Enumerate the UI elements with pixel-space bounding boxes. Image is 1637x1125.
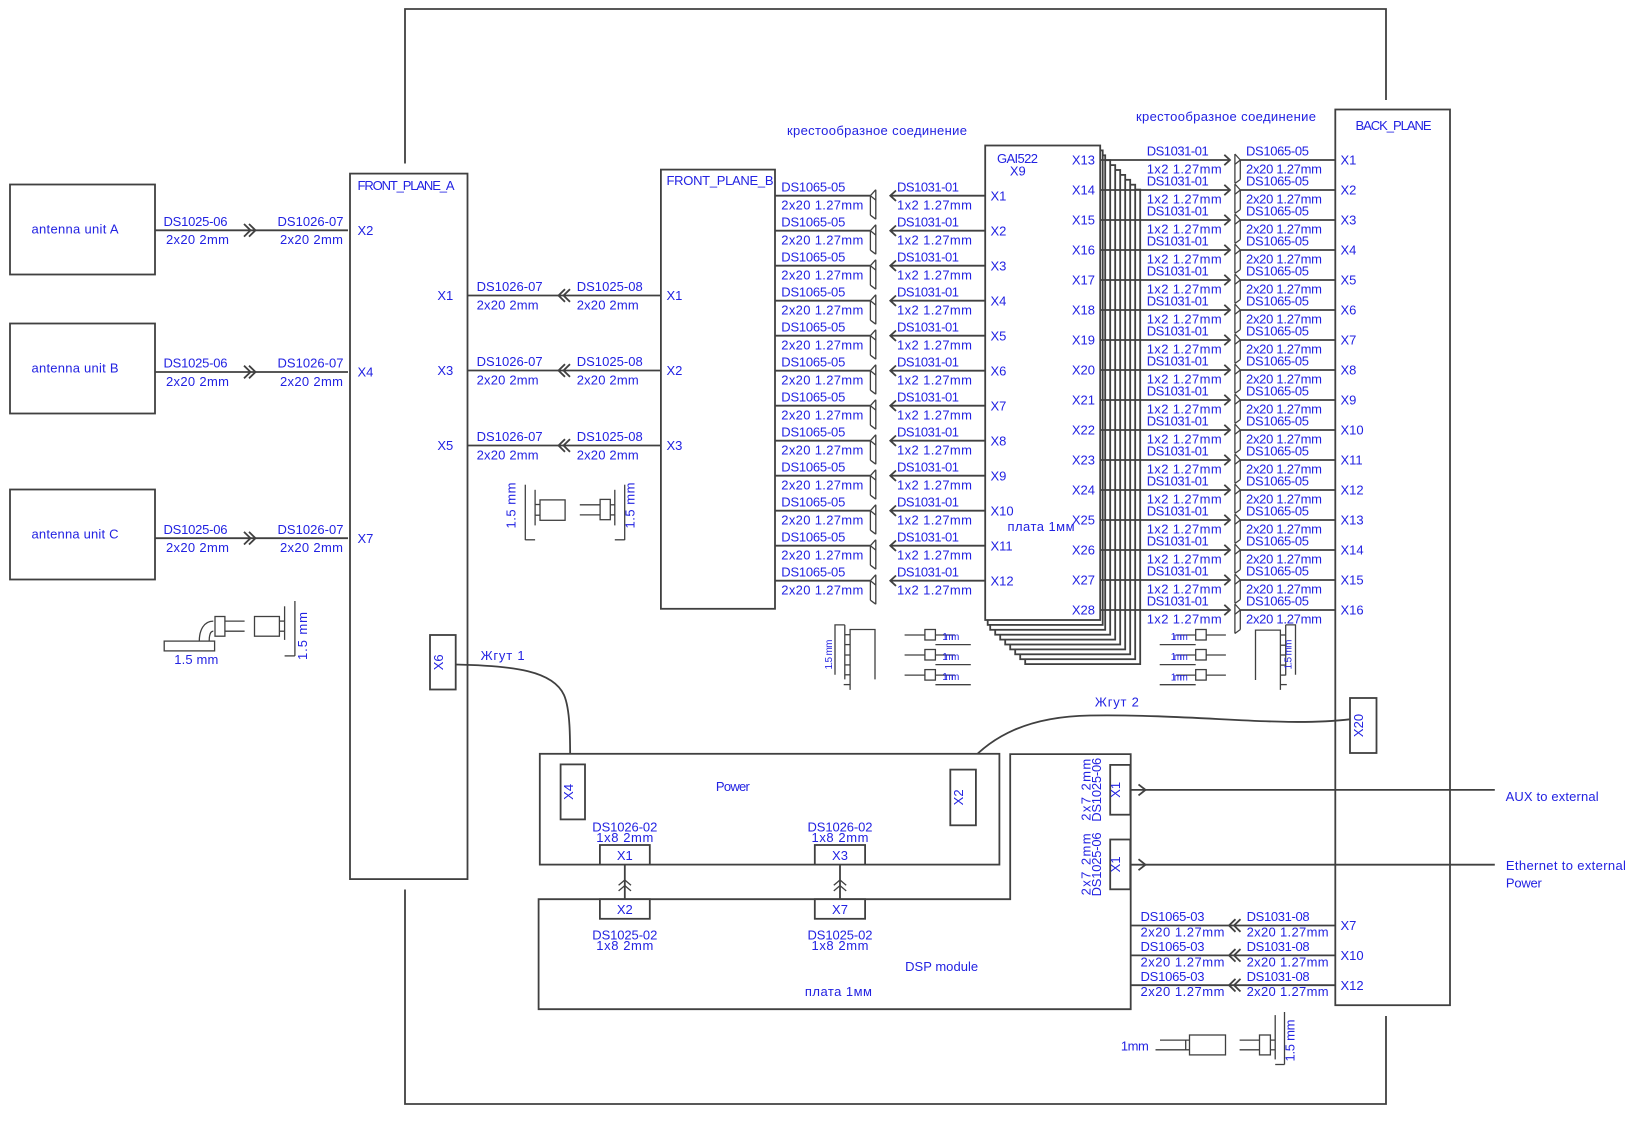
svg-text:1mm: 1mm xyxy=(942,632,959,643)
svg-text:X5: X5 xyxy=(1341,273,1357,288)
svg-text:DS1065-05: DS1065-05 xyxy=(1246,264,1309,279)
svg-text:2x20 1.27mm: 2x20 1.27mm xyxy=(1247,925,1329,940)
svg-text:X19: X19 xyxy=(1072,333,1095,348)
svg-text:1x8 2mm: 1x8 2mm xyxy=(596,938,653,953)
svg-text:DS1031-01: DS1031-01 xyxy=(897,564,959,579)
svg-text:X25: X25 xyxy=(1072,513,1095,528)
svg-text:Жгут 2: Жгут 2 xyxy=(1095,694,1139,709)
svg-text:DS1031-01: DS1031-01 xyxy=(1147,474,1209,489)
svg-text:1x8 2mm: 1x8 2mm xyxy=(812,830,869,845)
svg-text:DS1031-01: DS1031-01 xyxy=(1147,234,1209,249)
svg-text:X24: X24 xyxy=(1072,483,1095,498)
svg-text:BACK_PLANE: BACK_PLANE xyxy=(1356,118,1432,133)
svg-text:Жгут 1: Жгут 1 xyxy=(481,648,525,663)
svg-text:X27: X27 xyxy=(1072,573,1095,588)
svg-text:X3: X3 xyxy=(667,438,683,453)
svg-text:X1: X1 xyxy=(617,848,633,863)
svg-text:Ethernet to external: Ethernet to external xyxy=(1506,858,1626,873)
svg-text:1.5 mm: 1.5 mm xyxy=(504,483,519,529)
svg-text:DS1031-01: DS1031-01 xyxy=(1147,564,1209,579)
svg-text:X20: X20 xyxy=(1351,714,1366,737)
svg-text:X8: X8 xyxy=(991,433,1007,448)
svg-text:DS1065-03: DS1065-03 xyxy=(1141,969,1205,984)
svg-text:DS1065-05: DS1065-05 xyxy=(781,424,845,439)
svg-text:2x20 1.27mm: 2x20 1.27mm xyxy=(781,233,863,248)
svg-text:2x20 2mm: 2x20 2mm xyxy=(166,232,229,247)
svg-text:X28: X28 xyxy=(1072,603,1095,618)
svg-text:DS1065-03: DS1065-03 xyxy=(1141,939,1205,954)
svg-text:2x20 2mm: 2x20 2mm xyxy=(166,540,229,555)
svg-text:X4: X4 xyxy=(991,293,1007,308)
svg-text:DS1065-05: DS1065-05 xyxy=(781,319,845,334)
svg-text:DS1031-01: DS1031-01 xyxy=(1147,354,1209,369)
svg-text:DS1025-08: DS1025-08 xyxy=(577,279,643,294)
svg-text:Power: Power xyxy=(1506,875,1543,890)
svg-text:DS1031-01: DS1031-01 xyxy=(897,214,959,229)
svg-text:крестообразное соединение: крестообразное соединение xyxy=(1136,109,1316,124)
svg-text:2x20 1.27mm: 2x20 1.27mm xyxy=(781,548,863,563)
svg-text:X1: X1 xyxy=(437,288,453,303)
svg-text:DS1065-05: DS1065-05 xyxy=(1246,324,1309,339)
svg-text:DS1031-01: DS1031-01 xyxy=(1147,204,1209,219)
svg-text:X11: X11 xyxy=(991,538,1013,553)
svg-text:DS1065-05: DS1065-05 xyxy=(1246,354,1309,369)
svg-text:1x8 2mm: 1x8 2mm xyxy=(596,830,653,845)
svg-text:DS1065-05: DS1065-05 xyxy=(781,494,845,509)
svg-text:DS1025-06: DS1025-06 xyxy=(164,356,228,371)
svg-text:DS1031-01: DS1031-01 xyxy=(1147,414,1209,429)
svg-text:X6: X6 xyxy=(991,363,1007,378)
svg-text:DS1031-01: DS1031-01 xyxy=(897,424,959,439)
svg-text:DS1031-01: DS1031-01 xyxy=(1147,384,1209,399)
svg-text:X2: X2 xyxy=(991,223,1007,238)
svg-text:X3: X3 xyxy=(832,848,848,863)
svg-text:1.5 mm: 1.5 mm xyxy=(1284,640,1295,670)
svg-text:DS1065-05: DS1065-05 xyxy=(1246,534,1309,549)
svg-text:DS1031-08: DS1031-08 xyxy=(1247,939,1310,954)
svg-text:DS1031-01: DS1031-01 xyxy=(1147,594,1209,609)
svg-text:2x20 2mm: 2x20 2mm xyxy=(577,297,639,312)
svg-text:X3: X3 xyxy=(991,258,1007,273)
svg-text:1x2 1.27mm: 1x2 1.27mm xyxy=(897,548,972,563)
svg-text:X16: X16 xyxy=(1341,603,1364,618)
svg-text:X1: X1 xyxy=(1108,856,1123,872)
svg-text:DS1065-05: DS1065-05 xyxy=(1246,384,1309,399)
svg-text:DS1025-08: DS1025-08 xyxy=(577,354,643,369)
svg-text:DS1031-08: DS1031-08 xyxy=(1247,909,1310,924)
svg-text:DS1065-05: DS1065-05 xyxy=(781,249,845,264)
svg-text:DS1026-07: DS1026-07 xyxy=(278,356,344,371)
svg-text:X7: X7 xyxy=(832,902,848,917)
svg-text:DS1031-01: DS1031-01 xyxy=(1147,264,1209,279)
svg-text:DS1031-08: DS1031-08 xyxy=(1247,969,1310,984)
svg-text:X3: X3 xyxy=(1341,213,1357,228)
svg-text:DS1025-06: DS1025-06 xyxy=(1089,832,1104,896)
svg-text:2x20 2mm: 2x20 2mm xyxy=(477,297,539,312)
svg-text:2x20 2mm: 2x20 2mm xyxy=(477,447,539,462)
svg-text:antenna unit B: antenna unit B xyxy=(32,361,119,376)
svg-text:DS1026-07: DS1026-07 xyxy=(278,214,344,229)
svg-text:DS1065-05: DS1065-05 xyxy=(781,284,845,299)
svg-text:1x2 1.27mm: 1x2 1.27mm xyxy=(897,443,972,458)
svg-text:X5: X5 xyxy=(437,438,453,453)
svg-text:DS1065-05: DS1065-05 xyxy=(1246,474,1309,489)
svg-text:X10: X10 xyxy=(1341,423,1364,438)
svg-text:X26: X26 xyxy=(1072,543,1095,558)
svg-text:DS1065-05: DS1065-05 xyxy=(781,354,845,369)
svg-text:DS1031-01: DS1031-01 xyxy=(897,319,959,334)
svg-text:1mm: 1mm xyxy=(1171,652,1188,663)
svg-text:X4: X4 xyxy=(358,365,374,380)
svg-text:DS1065-05: DS1065-05 xyxy=(781,529,845,544)
svg-text:1x2 1.27mm: 1x2 1.27mm xyxy=(897,268,972,283)
svg-text:X22: X22 xyxy=(1072,423,1095,438)
svg-text:X10: X10 xyxy=(1341,948,1364,963)
svg-text:DS1065-05: DS1065-05 xyxy=(1246,174,1309,189)
svg-text:1.5 mm: 1.5 mm xyxy=(622,483,637,529)
svg-text:DS1031-01: DS1031-01 xyxy=(897,389,959,404)
svg-text:DS1065-05: DS1065-05 xyxy=(1246,234,1309,249)
svg-text:DS1031-01: DS1031-01 xyxy=(897,284,959,299)
svg-text:X13: X13 xyxy=(1072,153,1095,168)
svg-text:DS1065-05: DS1065-05 xyxy=(1246,414,1309,429)
svg-text:DS1065-05: DS1065-05 xyxy=(1246,444,1309,459)
svg-text:1mm: 1mm xyxy=(942,652,959,663)
svg-text:X10: X10 xyxy=(991,503,1014,518)
svg-text:DS1031-01: DS1031-01 xyxy=(897,179,959,194)
svg-text:DS1026-07: DS1026-07 xyxy=(477,354,543,369)
svg-text:DS1065-05: DS1065-05 xyxy=(1246,294,1309,309)
svg-text:X4: X4 xyxy=(561,784,576,800)
svg-text:X12: X12 xyxy=(991,573,1014,588)
svg-text:1mm: 1mm xyxy=(942,672,959,683)
svg-text:1mm: 1mm xyxy=(1171,672,1188,683)
svg-text:1x2 1.27mm: 1x2 1.27mm xyxy=(897,338,972,353)
svg-text:2x20 2mm: 2x20 2mm xyxy=(166,374,229,389)
svg-text:2x20 1.27mm: 2x20 1.27mm xyxy=(1247,954,1329,969)
svg-text:1x2 1.27mm: 1x2 1.27mm xyxy=(1147,612,1222,627)
svg-text:DSP module: DSP module xyxy=(905,959,978,974)
svg-text:X2: X2 xyxy=(617,902,633,917)
svg-text:X2: X2 xyxy=(1341,183,1357,198)
svg-text:DS1031-01: DS1031-01 xyxy=(1147,294,1209,309)
svg-text:X2: X2 xyxy=(667,363,683,378)
svg-text:DS1031-01: DS1031-01 xyxy=(1147,324,1209,339)
svg-text:X2: X2 xyxy=(951,789,966,805)
svg-text:X7: X7 xyxy=(991,398,1007,413)
svg-text:X20: X20 xyxy=(1072,363,1095,378)
svg-text:X9: X9 xyxy=(991,468,1007,483)
svg-text:1x2 1.27mm: 1x2 1.27mm xyxy=(897,373,972,388)
svg-text:DS1025-06: DS1025-06 xyxy=(164,214,228,229)
svg-text:antenna unit A: antenna unit A xyxy=(32,222,119,237)
svg-text:2x20 2mm: 2x20 2mm xyxy=(280,374,343,389)
svg-text:1x8 2mm: 1x8 2mm xyxy=(812,938,869,953)
svg-text:DS1026-07: DS1026-07 xyxy=(477,429,543,444)
svg-text:X1: X1 xyxy=(991,188,1007,203)
svg-text:X5: X5 xyxy=(991,328,1007,343)
svg-text:DS1065-03: DS1065-03 xyxy=(1141,909,1205,924)
svg-text:2x20 2mm: 2x20 2mm xyxy=(280,232,343,247)
svg-text:DS1065-05: DS1065-05 xyxy=(1246,504,1309,519)
svg-text:1x2 1.27mm: 1x2 1.27mm xyxy=(897,408,972,423)
svg-text:DS1031-01: DS1031-01 xyxy=(897,249,959,264)
svg-text:1.5 mm: 1.5 mm xyxy=(174,652,218,667)
svg-text:2x20 1.27mm: 2x20 1.27mm xyxy=(1246,612,1322,627)
svg-text:X7: X7 xyxy=(358,531,374,546)
svg-text:DS1031-01: DS1031-01 xyxy=(1147,444,1209,459)
svg-text:плата 1мм: плата 1мм xyxy=(1008,519,1075,534)
svg-text:DS1031-01: DS1031-01 xyxy=(897,494,959,509)
svg-text:DS1065-05: DS1065-05 xyxy=(1246,594,1309,609)
svg-text:X1: X1 xyxy=(1108,782,1123,798)
svg-text:DS1031-01: DS1031-01 xyxy=(897,354,959,369)
svg-text:X16: X16 xyxy=(1072,243,1095,258)
svg-text:X18: X18 xyxy=(1072,303,1095,318)
svg-text:1x2 1.27mm: 1x2 1.27mm xyxy=(897,198,972,213)
svg-text:DS1026-07: DS1026-07 xyxy=(278,522,344,537)
svg-text:X7: X7 xyxy=(1341,918,1357,933)
svg-text:X14: X14 xyxy=(1072,183,1095,198)
svg-text:X15: X15 xyxy=(1341,573,1364,588)
svg-text:DS1065-05: DS1065-05 xyxy=(1246,144,1309,159)
svg-text:X9: X9 xyxy=(1010,164,1026,179)
svg-text:X9: X9 xyxy=(1341,393,1357,408)
svg-text:FRONT_PLANE_B: FRONT_PLANE_B xyxy=(667,173,774,188)
svg-text:X13: X13 xyxy=(1341,513,1364,528)
svg-text:2x20 1.27mm: 2x20 1.27mm xyxy=(1141,954,1225,969)
svg-text:X14: X14 xyxy=(1341,543,1364,558)
svg-text:X21: X21 xyxy=(1072,393,1095,408)
svg-text:2x20 1.27mm: 2x20 1.27mm xyxy=(781,268,863,283)
svg-text:DS1025-06: DS1025-06 xyxy=(164,522,228,537)
svg-text:2x20 1.27mm: 2x20 1.27mm xyxy=(781,373,863,388)
svg-text:2x20 1.27mm: 2x20 1.27mm xyxy=(781,478,863,493)
svg-text:DS1031-01: DS1031-01 xyxy=(897,529,959,544)
svg-text:X3: X3 xyxy=(437,363,453,378)
svg-text:1mm: 1mm xyxy=(1171,632,1188,643)
svg-text:крестообразное соединение: крестообразное соединение xyxy=(787,123,967,138)
svg-text:antenna unit C: antenna unit C xyxy=(32,527,119,542)
svg-text:2x20 1.27mm: 2x20 1.27mm xyxy=(781,443,863,458)
svg-text:2x20 2mm: 2x20 2mm xyxy=(477,372,539,387)
svg-text:2x20 1.27mm: 2x20 1.27mm xyxy=(781,583,863,598)
svg-text:X8: X8 xyxy=(1341,363,1357,378)
svg-text:2x20 1.27mm: 2x20 1.27mm xyxy=(1141,925,1225,940)
svg-text:2x20 2mm: 2x20 2mm xyxy=(577,372,639,387)
svg-text:2x20 1.27mm: 2x20 1.27mm xyxy=(781,338,863,353)
svg-text:DS1065-05: DS1065-05 xyxy=(781,214,845,229)
svg-text:2x20 1.27mm: 2x20 1.27mm xyxy=(781,408,863,423)
svg-text:2x20 2mm: 2x20 2mm xyxy=(280,540,343,555)
svg-text:DS1031-01: DS1031-01 xyxy=(1147,174,1209,189)
svg-text:X11: X11 xyxy=(1341,453,1363,468)
svg-text:2x20 1.27mm: 2x20 1.27mm xyxy=(1247,984,1329,999)
svg-text:FRONT_PLANE_A: FRONT_PLANE_A xyxy=(358,178,455,193)
svg-text:DS1031-01: DS1031-01 xyxy=(1147,144,1209,159)
svg-text:X1: X1 xyxy=(1341,153,1357,168)
svg-text:X12: X12 xyxy=(1341,978,1364,993)
svg-text:DS1031-01: DS1031-01 xyxy=(1147,504,1209,519)
svg-text:X4: X4 xyxy=(1341,243,1357,258)
svg-text:1.5 mm: 1.5 mm xyxy=(824,640,835,670)
svg-text:DS1031-01: DS1031-01 xyxy=(1147,534,1209,549)
svg-text:1x2 1.27mm: 1x2 1.27mm xyxy=(897,583,972,598)
svg-text:DS1065-05: DS1065-05 xyxy=(1246,564,1309,579)
svg-text:X2: X2 xyxy=(358,223,374,238)
svg-text:2x20 1.27mm: 2x20 1.27mm xyxy=(781,513,863,528)
svg-text:DS1025-08: DS1025-08 xyxy=(577,429,643,444)
svg-text:X12: X12 xyxy=(1341,483,1364,498)
svg-text:1x2 1.27mm: 1x2 1.27mm xyxy=(897,233,972,248)
svg-text:X23: X23 xyxy=(1072,453,1095,468)
svg-text:X1: X1 xyxy=(667,288,683,303)
svg-text:DS1065-05: DS1065-05 xyxy=(781,179,845,194)
svg-text:1x2 1.27mm: 1x2 1.27mm xyxy=(897,478,972,493)
svg-text:X6: X6 xyxy=(1341,303,1357,318)
svg-text:DS1065-05: DS1065-05 xyxy=(781,389,845,404)
svg-text:X15: X15 xyxy=(1072,213,1095,228)
svg-text:1.5 mm: 1.5 mm xyxy=(295,612,310,660)
svg-text:DS1026-07: DS1026-07 xyxy=(477,279,543,294)
svg-text:2x20 1.27mm: 2x20 1.27mm xyxy=(781,198,863,213)
svg-text:DS1065-05: DS1065-05 xyxy=(781,564,845,579)
svg-text:1mm: 1mm xyxy=(1121,1039,1149,1054)
svg-text:X6: X6 xyxy=(431,654,446,670)
svg-text:2x20 1.27mm: 2x20 1.27mm xyxy=(1141,984,1225,999)
svg-text:DS1025-06: DS1025-06 xyxy=(1089,758,1104,822)
svg-text:Power: Power xyxy=(716,779,751,794)
svg-text:плата 1мм: плата 1мм xyxy=(805,984,872,999)
svg-text:1x2 1.27mm: 1x2 1.27mm xyxy=(897,513,972,528)
svg-text:DS1065-05: DS1065-05 xyxy=(1246,204,1309,219)
svg-text:1x2 1.27mm: 1x2 1.27mm xyxy=(897,303,972,318)
svg-text:2x20 2mm: 2x20 2mm xyxy=(577,447,639,462)
svg-text:DS1031-01: DS1031-01 xyxy=(897,459,959,474)
svg-text:X17: X17 xyxy=(1072,273,1095,288)
svg-text:1.5 mm: 1.5 mm xyxy=(1283,1020,1298,1062)
svg-text:DS1065-05: DS1065-05 xyxy=(781,459,845,474)
svg-text:AUX to external: AUX to external xyxy=(1506,789,1599,804)
svg-text:X7: X7 xyxy=(1341,333,1357,348)
svg-text:2x20 1.27mm: 2x20 1.27mm xyxy=(781,303,863,318)
